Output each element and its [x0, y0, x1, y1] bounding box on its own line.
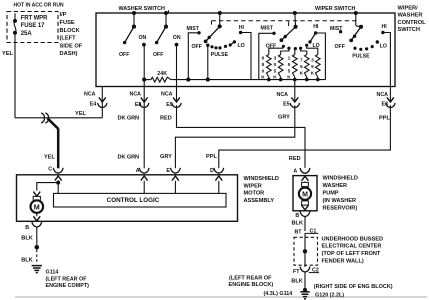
- ground G114: [32, 265, 42, 267]
- svg-text:SIDE OF: SIDE OF: [60, 43, 83, 49]
- underhood bussed electrical center dashed box: [294, 237, 318, 265]
- svg-text:DASH): DASH): [60, 51, 78, 57]
- svg-text:ON: ON: [173, 35, 181, 41]
- pulse detent dots 3: [353, 47, 356, 50]
- svg-text:RESERVOIR): RESERVOIR): [323, 206, 358, 212]
- node C junction: [56, 181, 60, 185]
- svg-text:SWITCH: SWITCH: [398, 27, 420, 33]
- svg-text:HI: HI: [239, 25, 245, 31]
- svg-text:WIPER SWITCH: WIPER SWITCH: [315, 6, 356, 12]
- svg-text:D: D: [210, 168, 214, 174]
- resistor 24K: [144, 79, 151, 81]
- svg-text:UNDERHOOD BUSSED: UNDERHOOD BUSSED: [322, 236, 384, 242]
- svg-text:DK GRN: DK GRN: [118, 154, 140, 160]
- svg-text:(4.3L) G114: (4.3L) G114: [264, 291, 293, 297]
- svg-text:ENGINE BLOCK): ENGINE BLOCK): [229, 282, 274, 288]
- svg-text:YEL: YEL: [75, 111, 86, 117]
- svg-text:C2: C2: [312, 268, 319, 274]
- windshield wiper motor assembly box: [17, 175, 238, 222]
- wiper/washer control switch box: [96, 13, 395, 87]
- svg-text:LO: LO: [380, 43, 387, 49]
- svg-text:0: 0: [262, 68, 265, 74]
- svg-text:RED: RED: [289, 156, 301, 162]
- svg-text:RED: RED: [160, 116, 172, 122]
- svg-text:LO: LO: [238, 43, 245, 49]
- connector NCA E5, wire GRY: [294, 80, 296, 101]
- svg-text:5: 5: [274, 68, 277, 74]
- resistor 75K: [301, 48, 307, 54]
- wire PPL routing to terminal D: [219, 105, 391, 168]
- svg-text:NCA: NCA: [84, 91, 96, 97]
- svg-text:B: B: [25, 225, 29, 231]
- svg-text:YEL: YEL: [44, 154, 55, 160]
- pulse detent dots: [210, 45, 213, 48]
- svg-text:24K: 24K: [157, 71, 167, 77]
- svg-text:PULSE: PULSE: [211, 52, 229, 58]
- svg-text:8: 8: [262, 62, 265, 68]
- svg-text:K: K: [273, 75, 277, 81]
- svg-text:(LEFT REAR OF: (LEFT REAR OF: [229, 275, 272, 281]
- svg-text:FUSE 17: FUSE 17: [21, 23, 45, 29]
- connector NCA E3, wire PPL: [389, 87, 391, 102]
- wire BLK to ground: [36, 227, 38, 245]
- bus wire: [171, 79, 325, 81]
- svg-text:I/P: I/P: [60, 12, 67, 18]
- svg-text:5: 5: [288, 68, 291, 74]
- svg-text:WIPER/: WIPER/: [398, 5, 419, 11]
- connector NCA E4: [101, 87, 103, 118]
- svg-text:E: E: [166, 168, 170, 174]
- svg-text:WASHER: WASHER: [323, 183, 348, 189]
- svg-text:ENGINE COMPT): ENGINE COMPT): [46, 283, 90, 289]
- svg-text:FRT WPR: FRT WPR: [21, 15, 48, 21]
- wire switch1 ON to E8: [143, 45, 145, 87]
- svg-text:CONTROL LOGIC: CONTROL LOGIC: [107, 197, 160, 204]
- wire YEL from fuse down: [14, 43, 16, 118]
- svg-text:OFF: OFF: [335, 44, 345, 50]
- svg-text:A: A: [293, 169, 297, 175]
- svg-text:GRY: GRY: [278, 115, 290, 121]
- fuse box dashed enclosure (I/P fuse block): [7, 12, 58, 43]
- svg-text:K: K: [300, 70, 304, 76]
- svg-text:9: 9: [311, 64, 314, 70]
- svg-text:E3: E3: [382, 102, 389, 108]
- svg-text:FENDER WALL): FENDER WALL): [322, 258, 364, 264]
- svg-text:M: M: [302, 191, 308, 198]
- svg-text:0: 0: [274, 62, 277, 68]
- wire HI contact to bus: [241, 33, 251, 80]
- rotary wiper switch 3 (far right): [354, 11, 358, 15]
- svg-text:E5: E5: [283, 102, 290, 108]
- svg-text:C: C: [48, 167, 52, 173]
- svg-text:MOTOR: MOTOR: [244, 191, 265, 197]
- svg-text:HOT IN ACC OR RUN: HOT IN ACC OR RUN: [14, 3, 64, 9]
- svg-text:5: 5: [288, 62, 291, 68]
- connector C2: [304, 265, 306, 267]
- svg-text:G120 (2.2L): G120 (2.2L): [315, 292, 344, 298]
- svg-text:NCA: NCA: [130, 91, 142, 97]
- svg-text:MIST: MIST: [261, 26, 274, 32]
- svg-text:K: K: [261, 75, 265, 81]
- svg-text:WIPER: WIPER: [244, 183, 262, 189]
- svg-text:1: 1: [288, 56, 291, 62]
- svg-text:BLK: BLK: [21, 257, 33, 263]
- wire MIST contact to bus: [188, 33, 199, 80]
- svg-text:NCA: NCA: [377, 92, 389, 98]
- svg-text:ON: ON: [139, 35, 147, 41]
- detent dots 2: [282, 45, 285, 48]
- resistor 39K: [307, 45, 318, 54]
- svg-text:BLK: BLK: [21, 236, 33, 242]
- svg-text:FUSE: FUSE: [60, 20, 75, 26]
- fuse FRT WPR FUSE 17 25A: [14, 13, 16, 19]
- svg-text:BLOCK: BLOCK: [60, 28, 81, 34]
- connector NCA E9, wire RED: [176, 87, 178, 102]
- svg-text:WINDSHIELD: WINDSHIELD: [323, 176, 358, 182]
- svg-text:E4: E4: [90, 102, 97, 108]
- svg-text:K: K: [311, 70, 315, 76]
- svg-text:3: 3: [311, 58, 314, 64]
- svg-text:(RIGHT SIDE OF ENG BLOCK): (RIGHT SIDE OF ENG BLOCK): [314, 284, 393, 290]
- wire to wiper motor: [37, 183, 58, 191]
- svg-text:MIST: MIST: [187, 26, 200, 32]
- svg-text:CONTROL: CONTROL: [398, 20, 427, 26]
- svg-text:WASHER SWITCH: WASHER SWITCH: [119, 6, 166, 12]
- rotary wiper switch 2 with resistor bank: [293, 11, 297, 15]
- wire OFF contact to bus: [207, 45, 209, 79]
- svg-text:C1: C1: [310, 229, 317, 235]
- resistor bottoms on bus: [268, 77, 270, 79]
- svg-text:6: 6: [262, 56, 265, 62]
- wire GRY routing to terminal E: [175, 105, 294, 168]
- svg-text:(LEFT: (LEFT: [60, 36, 77, 42]
- svg-text:ELECTRICAL CENTER: ELECTRICAL CENTER: [322, 244, 382, 250]
- svg-text:WASHER: WASHER: [398, 13, 423, 19]
- wire switch2 ON to E9: [176, 45, 178, 87]
- svg-text:DK GRN: DK GRN: [118, 116, 140, 122]
- svg-text:5: 5: [300, 64, 303, 70]
- svg-text:NCA: NCA: [161, 91, 173, 97]
- svg-text:25A: 25A: [21, 31, 33, 37]
- bold YEL branch down to C: [47, 118, 58, 129]
- svg-text:BLK: BLK: [292, 220, 304, 226]
- svg-text:OFF: OFF: [153, 52, 163, 58]
- svg-text:PPL: PPL: [206, 154, 217, 160]
- svg-text:FT: FT: [293, 269, 300, 275]
- svg-text:PUMP: PUMP: [323, 191, 339, 197]
- svg-text:3: 3: [274, 56, 277, 62]
- wiper motor M: [33, 192, 40, 197]
- svg-text:E9: E9: [166, 102, 173, 108]
- svg-text:G114: G114: [46, 269, 59, 275]
- svg-text:YEL: YEL: [2, 51, 13, 57]
- control logic box: [54, 193, 227, 207]
- svg-text:K: K: [287, 75, 291, 81]
- washer toggle switch 2: [164, 11, 168, 15]
- resistor 680K: [269, 48, 284, 54]
- connector NCA E8, wire DK GRN: [143, 87, 145, 169]
- resistor 155K: [294, 49, 296, 55]
- gang dashed line: [212, 20, 358, 22]
- ground G120: [303, 288, 307, 292]
- svg-text:OFF: OFF: [192, 44, 202, 50]
- svg-text:(TOP OF LEFT FRONT: (TOP OF LEFT FRONT: [322, 251, 381, 257]
- wire YEL horizontal: [15, 117, 102, 119]
- wire MIST2 to bus: [259, 33, 274, 79]
- svg-text:E8: E8: [135, 102, 142, 108]
- splice dot: [35, 245, 40, 250]
- svg-text:HI: HI: [313, 24, 319, 30]
- washer toggle switch 1: [132, 11, 136, 15]
- wire HI2 to bus: [316, 33, 326, 80]
- svg-text:PPL: PPL: [379, 116, 390, 122]
- washer pump motor M: [304, 181, 306, 182]
- svg-text:OFF: OFF: [119, 52, 129, 58]
- svg-text:ASSEMBLY: ASSEMBLY: [244, 198, 275, 204]
- svg-text:WINDSHIELD: WINDSHIELD: [244, 176, 279, 182]
- svg-text:PULSE: PULSE: [352, 53, 370, 59]
- svg-text:NCA: NCA: [277, 92, 289, 98]
- svg-text:GRY: GRY: [160, 154, 172, 160]
- rotary wiper switch 1 (MIST OFF PULSE LO HI): [218, 11, 222, 15]
- svg-text:(IN WASHER: (IN WASHER: [323, 198, 357, 204]
- svg-text:(LEFT REAR OF: (LEFT REAR OF: [46, 276, 88, 282]
- wire HI3 to E3: [383, 33, 391, 87]
- svg-text:7: 7: [300, 58, 303, 64]
- windshield washer pump box: [293, 176, 317, 211]
- wire RED routing to washer pump: [177, 105, 306, 168]
- svg-text:BT: BT: [294, 230, 302, 236]
- svg-text:M: M: [34, 202, 40, 211]
- resistor 305K: [281, 48, 289, 54]
- svg-text:HI: HI: [382, 24, 388, 30]
- internal wires to control logic: [143, 181, 145, 194]
- svg-text:BLK: BLK: [291, 279, 303, 285]
- inline connector on YEL: [41, 113, 44, 123]
- svg-text:B: B: [295, 213, 299, 219]
